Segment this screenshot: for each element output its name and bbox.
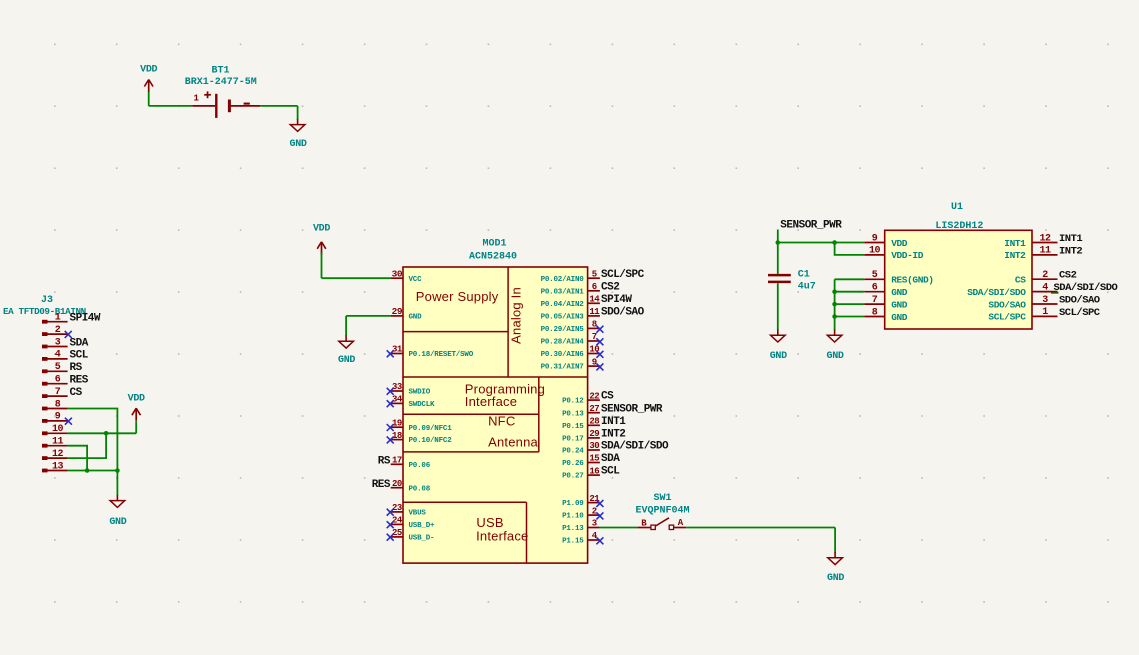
- svg-text:31: 31: [392, 345, 403, 355]
- svg-text:10: 10: [52, 424, 64, 435]
- svg-text:GND: GND: [338, 355, 355, 366]
- svg-text:7: 7: [55, 387, 61, 398]
- svg-text:INT2: INT2: [1004, 250, 1026, 261]
- svg-text:7: 7: [872, 295, 878, 306]
- svg-text:VDD: VDD: [891, 238, 908, 249]
- svg-text:GND: GND: [409, 314, 423, 322]
- svg-text:34: 34: [392, 395, 403, 405]
- svg-text:NFC: NFC: [488, 414, 515, 429]
- svg-text:P0.29/AIN5: P0.29/AIN5: [541, 326, 585, 334]
- svg-text:P0.05/AIN3: P0.05/AIN3: [541, 314, 585, 322]
- svg-text:MOD1: MOD1: [482, 239, 506, 250]
- svg-text:P1.13: P1.13: [562, 525, 584, 533]
- svg-text:EVQPNF04M: EVQPNF04M: [635, 506, 689, 517]
- svg-text:P0.09/NFC1: P0.09/NFC1: [409, 425, 453, 433]
- svg-text:SWDIO: SWDIO: [409, 389, 431, 397]
- svg-text:11: 11: [589, 307, 600, 317]
- svg-text:1: 1: [55, 313, 61, 324]
- svg-text:VDD: VDD: [128, 393, 145, 404]
- svg-text:23: 23: [392, 503, 402, 513]
- svg-text:8: 8: [872, 307, 878, 318]
- svg-text:GND: GND: [891, 299, 908, 310]
- svg-text:ACN52840: ACN52840: [469, 251, 517, 262]
- svg-text:8: 8: [55, 399, 61, 410]
- svg-text:22: 22: [589, 391, 599, 401]
- svg-text:VDD: VDD: [140, 65, 157, 76]
- svg-text:29: 29: [392, 306, 403, 317]
- svg-text:11: 11: [1039, 246, 1051, 257]
- svg-text:25: 25: [392, 528, 402, 538]
- svg-text:4: 4: [1042, 282, 1048, 293]
- svg-text:12: 12: [1039, 233, 1051, 244]
- svg-text:VDD: VDD: [313, 223, 330, 234]
- svg-text:P0.12: P0.12: [562, 398, 584, 406]
- svg-text:3: 3: [1042, 295, 1048, 306]
- svg-text:9: 9: [592, 357, 597, 367]
- svg-text:1: 1: [1042, 307, 1048, 318]
- svg-text:30: 30: [392, 268, 403, 279]
- svg-text:4: 4: [55, 350, 61, 361]
- svg-text:J3: J3: [41, 295, 53, 306]
- svg-text:SDA/SDI/SDO: SDA/SDI/SDO: [1054, 282, 1118, 294]
- svg-text:CS: CS: [70, 387, 83, 399]
- svg-text:P0.04/AIN2: P0.04/AIN2: [541, 301, 585, 309]
- svg-text:SPI4W: SPI4W: [70, 313, 101, 325]
- svg-text:P0.06: P0.06: [409, 462, 431, 470]
- svg-text:Power Supply: Power Supply: [416, 289, 499, 304]
- svg-text:4u7: 4u7: [798, 281, 816, 292]
- svg-text:P0.10/NFC2: P0.10/NFC2: [409, 437, 453, 445]
- svg-text:A: A: [678, 518, 684, 528]
- svg-text:18: 18: [392, 431, 402, 441]
- svg-text:SCL/SPC: SCL/SPC: [601, 269, 645, 281]
- svg-text:SENSOR_PWR: SENSOR_PWR: [601, 403, 663, 415]
- svg-text:SENSOR_PWR: SENSOR_PWR: [780, 220, 842, 232]
- svg-text:BRX1-2477-5M: BRX1-2477-5M: [185, 77, 257, 88]
- svg-text:P0.31/AIN7: P0.31/AIN7: [541, 364, 584, 372]
- svg-text:GND: GND: [109, 517, 126, 528]
- svg-text:7: 7: [592, 332, 597, 342]
- svg-text:INT1: INT1: [601, 416, 626, 428]
- svg-text:Antenna: Antenna: [488, 435, 538, 450]
- svg-text:GND: GND: [827, 573, 844, 584]
- svg-text:SDO/SAO: SDO/SAO: [601, 307, 645, 319]
- svg-text:SPI4W: SPI4W: [601, 294, 632, 306]
- svg-text:3: 3: [592, 519, 597, 529]
- svg-text:P0.27: P0.27: [562, 473, 584, 481]
- svg-text:USB_D+: USB_D+: [409, 522, 436, 530]
- svg-text:SWDCLK: SWDCLK: [409, 401, 436, 409]
- svg-text:28: 28: [589, 417, 599, 427]
- svg-text:SCL/SPC: SCL/SPC: [1059, 307, 1101, 319]
- svg-text:P1.09: P1.09: [562, 500, 584, 508]
- svg-text:24: 24: [392, 516, 403, 526]
- svg-text:SDA: SDA: [70, 337, 89, 349]
- svg-text:INT2: INT2: [601, 429, 625, 441]
- svg-text:P0.03/AIN1: P0.03/AIN1: [541, 288, 585, 296]
- svg-text:16: 16: [589, 466, 599, 476]
- svg-text:17: 17: [392, 456, 402, 466]
- svg-text:CS: CS: [1015, 275, 1026, 286]
- svg-text:BT1: BT1: [211, 66, 229, 77]
- svg-text:Interface: Interface: [465, 394, 517, 409]
- svg-text:GND: GND: [827, 351, 844, 362]
- svg-text:29: 29: [589, 429, 599, 439]
- svg-text:10: 10: [869, 246, 881, 257]
- svg-text:15: 15: [589, 454, 599, 464]
- svg-text:20: 20: [392, 479, 402, 489]
- svg-text:RES: RES: [372, 479, 391, 491]
- svg-text:B: B: [641, 519, 647, 529]
- svg-text:P0.02/AIN0: P0.02/AIN0: [541, 276, 585, 284]
- svg-text:Interface: Interface: [476, 529, 528, 544]
- svg-text:SDO/SAO: SDO/SAO: [988, 299, 1026, 310]
- svg-text:14: 14: [589, 295, 600, 305]
- svg-text:CS: CS: [601, 391, 614, 403]
- svg-text:P0.15: P0.15: [562, 423, 584, 431]
- svg-text:CS2: CS2: [601, 281, 619, 293]
- svg-text:27: 27: [589, 404, 599, 414]
- svg-text:2: 2: [55, 325, 61, 336]
- svg-text:U1: U1: [951, 202, 963, 213]
- svg-text:5: 5: [592, 269, 597, 279]
- svg-text:13: 13: [52, 461, 64, 472]
- svg-text:30: 30: [589, 441, 599, 451]
- svg-text:SDA: SDA: [601, 453, 620, 465]
- svg-text:P0.24: P0.24: [562, 448, 584, 456]
- svg-text:SCL/SPC: SCL/SPC: [988, 312, 1026, 323]
- svg-text:6: 6: [592, 282, 597, 292]
- svg-text:5: 5: [872, 270, 878, 281]
- svg-text:9: 9: [55, 412, 61, 423]
- svg-text:C1: C1: [798, 270, 810, 281]
- svg-text:P0.30/AIN6: P0.30/AIN6: [541, 351, 585, 359]
- svg-text:SCL: SCL: [70, 350, 89, 362]
- svg-text:P0.08: P0.08: [409, 485, 431, 493]
- svg-text:P1.10: P1.10: [562, 513, 584, 521]
- svg-text:P0.18/RESET/SWO: P0.18/RESET/SWO: [409, 351, 474, 359]
- svg-text:2: 2: [1042, 270, 1048, 281]
- svg-text:RES(GND): RES(GND): [891, 275, 933, 286]
- svg-text:INT1: INT1: [1059, 233, 1082, 245]
- svg-text:VDD-ID: VDD-ID: [891, 250, 924, 261]
- svg-text:6: 6: [872, 283, 878, 294]
- svg-text:RS: RS: [70, 362, 83, 374]
- svg-text:P0.13: P0.13: [562, 410, 584, 418]
- svg-text:USB_D-: USB_D-: [409, 535, 435, 543]
- svg-text:33: 33: [392, 382, 402, 392]
- svg-text:P1.15: P1.15: [562, 538, 584, 546]
- svg-text:SDA/SDI/SDO: SDA/SDI/SDO: [967, 287, 1026, 298]
- svg-text:6: 6: [55, 375, 61, 386]
- svg-text:P0.26: P0.26: [562, 460, 584, 468]
- svg-text:RS: RS: [378, 456, 391, 468]
- svg-text:SCL: SCL: [601, 466, 620, 478]
- svg-text:INT2: INT2: [1059, 245, 1082, 257]
- svg-text:SW1: SW1: [653, 493, 671, 504]
- svg-text:11: 11: [52, 437, 64, 448]
- svg-text:1: 1: [193, 94, 199, 104]
- svg-text:SDO/SAO: SDO/SAO: [1059, 294, 1100, 306]
- svg-text:P0.28/AIN4: P0.28/AIN4: [541, 339, 585, 347]
- svg-text:INT1: INT1: [1004, 238, 1026, 249]
- svg-text:P0.17: P0.17: [562, 436, 584, 444]
- svg-text:GND: GND: [891, 287, 908, 298]
- svg-text:9: 9: [872, 233, 878, 244]
- svg-text:2: 2: [592, 506, 597, 516]
- svg-text:5: 5: [55, 362, 61, 373]
- svg-text:GND: GND: [891, 312, 908, 323]
- svg-text:GND: GND: [290, 139, 307, 150]
- svg-text:SDA/SDI/SDO: SDA/SDI/SDO: [601, 441, 669, 453]
- svg-text:12: 12: [52, 449, 64, 460]
- svg-text:3: 3: [55, 337, 61, 348]
- svg-text:VBUS: VBUS: [409, 510, 427, 518]
- svg-text:19: 19: [392, 418, 402, 428]
- svg-text:CS2: CS2: [1059, 270, 1077, 282]
- svg-text:RES: RES: [70, 375, 89, 387]
- svg-text:Analog In: Analog In: [508, 287, 523, 344]
- svg-text:GND: GND: [770, 351, 787, 362]
- svg-text:8: 8: [592, 320, 597, 330]
- svg-text:VCC: VCC: [409, 276, 423, 284]
